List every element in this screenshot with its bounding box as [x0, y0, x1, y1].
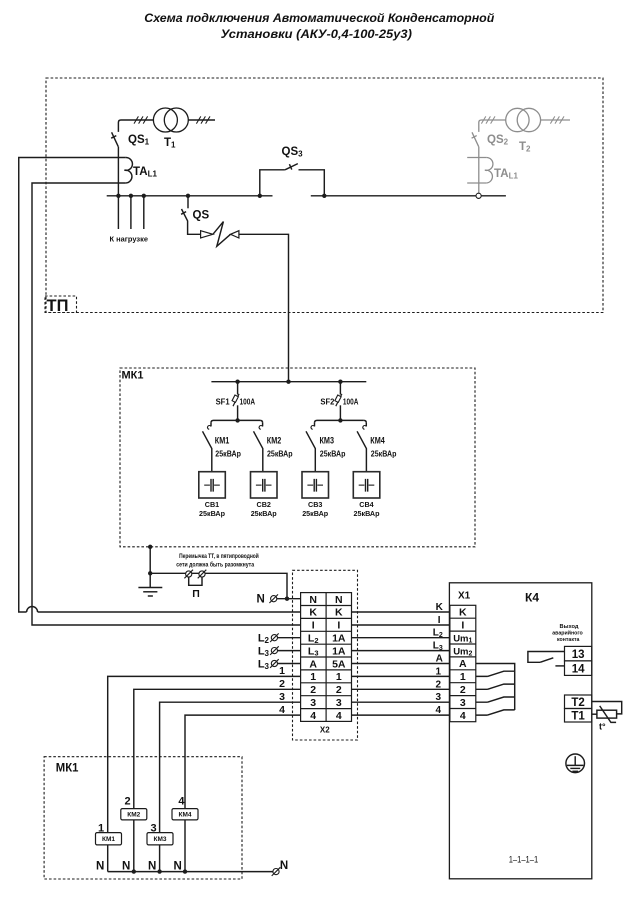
svg-text:I: I [438, 615, 441, 626]
svg-text:Um2: Um2 [453, 646, 472, 657]
svg-text:2: 2 [124, 795, 130, 807]
svg-text:N: N [309, 594, 317, 606]
svg-text:КМ4: КМ4 [370, 435, 385, 445]
svg-text:N: N [122, 861, 130, 873]
svg-text:СВ3: СВ3 [308, 500, 322, 509]
svg-text:4: 4 [310, 710, 316, 722]
svg-text:ТАL1: ТАL1 [494, 168, 518, 181]
svg-text:4: 4 [178, 795, 185, 807]
svg-text:КМ1: КМ1 [215, 435, 230, 445]
svg-text:А: А [436, 654, 443, 665]
svg-text:3: 3 [460, 697, 466, 709]
svg-text:К4: К4 [525, 591, 539, 605]
svg-text:Т1: Т1 [571, 711, 585, 723]
svg-text:4: 4 [460, 710, 466, 722]
svg-text:14: 14 [572, 663, 585, 675]
svg-text:КМ3: КМ3 [154, 836, 167, 843]
svg-text:КМ4: КМ4 [179, 812, 192, 819]
svg-text:Т2: Т2 [571, 697, 584, 709]
svg-text:А: А [309, 658, 317, 670]
svg-text:МК1: МК1 [56, 760, 79, 774]
svg-text:сети должна быть разомкнута: сети должна быть разомкнута [176, 562, 254, 569]
svg-text:2: 2 [279, 678, 285, 690]
svg-text:ТАL1: ТАL1 [133, 166, 157, 179]
svg-text:1: 1 [310, 671, 316, 683]
svg-text:QS1: QS1 [128, 134, 150, 147]
svg-text:N: N [280, 860, 288, 872]
svg-text:К нагрузке: К нагрузке [110, 234, 149, 243]
svg-text:25кВАр: 25кВАр [320, 449, 346, 458]
svg-text:N: N [96, 861, 104, 873]
svg-text:1: 1 [98, 823, 104, 835]
svg-text:t°: t° [599, 722, 606, 732]
svg-text:СВ1: СВ1 [205, 500, 219, 509]
svg-text:4: 4 [336, 710, 342, 722]
svg-text:ТП: ТП [47, 297, 69, 315]
svg-text:K: K [335, 607, 343, 619]
svg-text:25кВАр: 25кВАр [302, 509, 329, 518]
svg-text:N: N [148, 861, 156, 873]
svg-text:N: N [174, 861, 182, 873]
svg-text:25кВАр: 25кВАр [371, 449, 397, 458]
svg-text:I: I [337, 620, 340, 632]
svg-text:L2: L2 [258, 633, 270, 646]
svg-text:2: 2 [460, 684, 466, 696]
svg-text:5А: 5А [332, 658, 346, 670]
svg-text:25кВАр: 25кВАр [251, 509, 278, 518]
svg-text:Um1: Um1 [453, 633, 472, 644]
svg-text:L3: L3 [308, 645, 319, 657]
svg-text:L3: L3 [258, 646, 270, 659]
svg-text:1: 1 [336, 671, 342, 683]
svg-text:СВ2: СВ2 [257, 500, 271, 509]
svg-text:25кВАр: 25кВАр [267, 449, 293, 458]
svg-text:3: 3 [279, 691, 285, 703]
svg-text:КМ1: КМ1 [102, 836, 115, 843]
svg-text:2: 2 [336, 684, 342, 696]
svg-text:контакта: контакта [557, 637, 580, 643]
svg-text:SF2: SF2 [320, 398, 335, 407]
svg-text:КМ3: КМ3 [320, 435, 335, 445]
svg-text:N: N [257, 594, 265, 606]
svg-text:L3: L3 [258, 659, 270, 672]
svg-text:13: 13 [572, 649, 585, 661]
svg-text:КМ2: КМ2 [127, 812, 140, 819]
svg-text:N: N [335, 594, 343, 606]
svg-text:3: 3 [310, 697, 316, 709]
svg-text:МК1: МК1 [122, 370, 144, 382]
svg-text:QS: QS [193, 210, 210, 222]
svg-text:СВ4: СВ4 [359, 500, 373, 509]
svg-text:I: I [312, 620, 315, 632]
svg-text:Т1: Т1 [164, 137, 176, 150]
svg-text:4: 4 [435, 705, 441, 716]
svg-text:K: K [436, 602, 444, 613]
svg-text:100А: 100А [240, 398, 256, 407]
svg-text:Х2: Х2 [320, 724, 330, 734]
svg-text:Выход: Выход [560, 624, 580, 630]
svg-text:1А: 1А [332, 633, 346, 645]
svg-text:QS3: QS3 [282, 146, 304, 159]
svg-text:4: 4 [279, 704, 285, 716]
svg-text:1: 1 [460, 671, 466, 683]
svg-text:1А: 1А [332, 645, 346, 657]
svg-text:25кВАр: 25кВАр [199, 509, 226, 518]
svg-text:3: 3 [435, 692, 441, 703]
svg-text:1–1–1–1: 1–1–1–1 [509, 855, 539, 866]
svg-text:1: 1 [435, 666, 441, 677]
svg-text:аварийного: аварийного [552, 630, 583, 637]
svg-text:КМ2: КМ2 [267, 435, 282, 445]
svg-text:1: 1 [279, 665, 285, 677]
svg-text:3: 3 [150, 823, 156, 835]
svg-text:Схема подключения Автоматическ: Схема подключения Автоматической Конденс… [144, 11, 494, 25]
svg-text:А: А [459, 658, 467, 670]
svg-text:25кВАр: 25кВАр [353, 509, 380, 518]
svg-text:L2: L2 [433, 628, 443, 639]
svg-text:25кВАр: 25кВАр [215, 449, 241, 458]
svg-text:2: 2 [310, 684, 316, 696]
svg-text:3: 3 [336, 697, 342, 709]
svg-text:П: П [192, 588, 200, 600]
svg-text:QS2: QS2 [487, 134, 509, 147]
svg-text:100А: 100А [343, 398, 359, 407]
svg-text:I: I [461, 620, 464, 632]
svg-text:2: 2 [435, 679, 441, 690]
svg-text:Т2: Т2 [519, 141, 531, 154]
svg-text:L3: L3 [433, 641, 443, 652]
svg-text:Перемычка ТТ, в пятипроводной: Перемычка ТТ, в пятипроводной [179, 553, 259, 560]
svg-text:Х1: Х1 [458, 590, 471, 601]
svg-text:K: K [309, 607, 317, 619]
svg-text:K: K [459, 607, 467, 619]
svg-text:SF1: SF1 [216, 398, 231, 407]
svg-text:Установки (АКУ-0,4-100-25у3): Установки (АКУ-0,4-100-25у3) [221, 27, 412, 41]
svg-text:L2: L2 [308, 633, 319, 645]
